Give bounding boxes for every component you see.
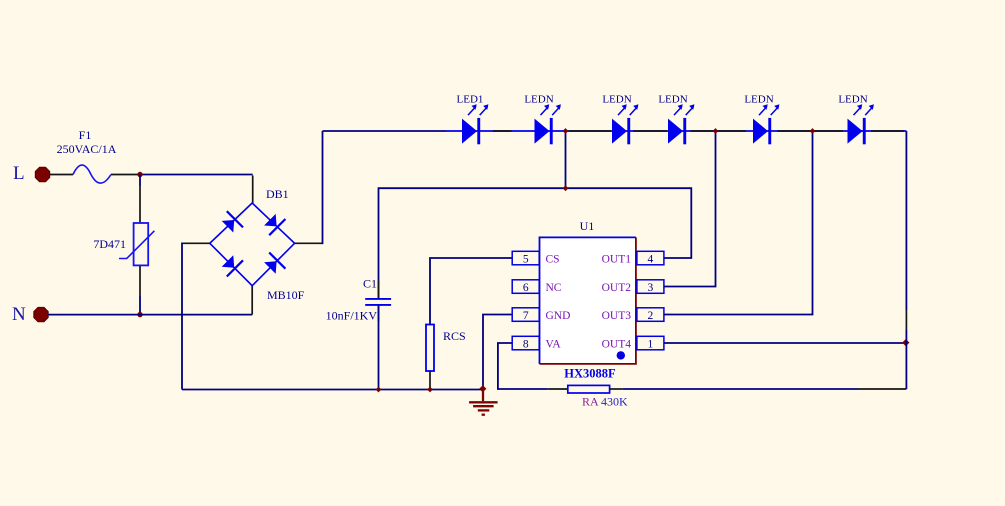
wire OUT3 bbox=[664, 131, 813, 315]
junction RCS-ground rail bbox=[427, 387, 433, 393]
pin 4 box bbox=[637, 251, 664, 265]
wire pin7 GND bbox=[483, 315, 512, 390]
svg-text:OUT2: OUT2 bbox=[602, 282, 632, 294]
LED LED2 bbox=[535, 104, 561, 144]
svg-text:LEDN: LEDN bbox=[838, 94, 867, 106]
svg-text:RA 430K: RA 430K bbox=[582, 395, 628, 409]
LED LED6 bbox=[848, 104, 874, 144]
svg-text:HX3088F: HX3088F bbox=[564, 367, 616, 381]
svg-text:4: 4 bbox=[648, 253, 654, 265]
pin 5 box bbox=[512, 251, 539, 265]
svg-text:C1: C1 bbox=[363, 277, 377, 291]
svg-text:GND: GND bbox=[546, 310, 571, 322]
svg-text:1: 1 bbox=[648, 338, 654, 350]
svg-text:6: 6 bbox=[523, 282, 529, 294]
wire RA right black segment bbox=[610, 388, 623, 390]
wire bridge left to ground rail bbox=[182, 242, 210, 244]
bridge diode bottom-left bbox=[222, 255, 243, 276]
svg-text:NC: NC bbox=[546, 282, 562, 294]
wire node1 to bridge top bbox=[140, 174, 253, 176]
LED LED3 bbox=[612, 104, 638, 144]
wire N to bridge bottom bbox=[251, 286, 253, 315]
pin 2 box bbox=[637, 308, 664, 322]
svg-text:10nF/1KV: 10nF/1KV bbox=[326, 309, 378, 323]
svg-text:OUT3: OUT3 bbox=[602, 310, 632, 322]
wire RA to right rail bbox=[623, 388, 858, 390]
terminal L bbox=[35, 167, 49, 181]
IC U1 body bbox=[540, 237, 636, 364]
junction OUT4-right rail bbox=[902, 339, 909, 346]
wire pin8 VA to RA bbox=[498, 343, 548, 389]
junction LED rail node C bbox=[810, 128, 816, 134]
svg-text:L: L bbox=[13, 163, 25, 184]
wire bridge right to LED rail bbox=[295, 242, 323, 244]
svg-text:DB1: DB1 bbox=[266, 187, 289, 201]
svg-text:LEDN: LEDN bbox=[602, 94, 631, 106]
fuse F1 bbox=[73, 165, 111, 183]
wire OUT2 bbox=[664, 131, 716, 287]
wire ground rail bottom bbox=[182, 389, 483, 391]
svg-text:7D471: 7D471 bbox=[93, 237, 126, 251]
varistor RV 7D471 bbox=[119, 223, 154, 265]
svg-text:8: 8 bbox=[523, 338, 529, 350]
junction node1 bbox=[137, 172, 142, 177]
pin 7 box bbox=[512, 308, 539, 322]
wire VA black segment bbox=[548, 388, 568, 390]
junction LED rail node B bbox=[713, 128, 719, 134]
wire LED rail black gaps bbox=[493, 130, 904, 132]
bridge rectifier DB1 diamond bbox=[210, 203, 295, 286]
bridge diode top-right bbox=[264, 214, 285, 235]
wire right rail bbox=[905, 131, 907, 310]
svg-text:2: 2 bbox=[648, 310, 654, 322]
wire C1 bottom bbox=[378, 305, 380, 390]
junction LED rail node A bbox=[563, 128, 569, 134]
capacitor C1 bbox=[365, 281, 391, 322]
wire C1 top and OUT1 net bbox=[379, 188, 692, 299]
LED LED5 bbox=[753, 104, 779, 144]
wire varistor to N line bbox=[139, 266, 141, 296]
pin 1 box bbox=[637, 336, 664, 350]
wire RCS bottom bbox=[429, 371, 431, 390]
svg-text:VA: VA bbox=[546, 338, 562, 350]
terminal N bbox=[34, 307, 48, 321]
pin 8 box bbox=[512, 336, 539, 350]
junction node N-varistor bbox=[137, 312, 142, 317]
LED LED1 bbox=[462, 104, 488, 144]
wire LED2 node down bbox=[565, 131, 567, 188]
svg-text:OUT1: OUT1 bbox=[602, 253, 632, 265]
svg-text:LEDN: LEDN bbox=[524, 94, 553, 106]
svg-text:3: 3 bbox=[648, 282, 654, 294]
svg-text:U1: U1 bbox=[580, 219, 595, 233]
junction GND-ground rail bbox=[479, 385, 486, 392]
wire LED rail blue bbox=[446, 130, 906, 132]
svg-text:LED1: LED1 bbox=[457, 94, 484, 106]
bridge diode top-left bbox=[222, 211, 243, 232]
bridge diode bottom-right bbox=[264, 253, 285, 274]
svg-text:F1: F1 bbox=[79, 128, 92, 142]
svg-text:LEDN: LEDN bbox=[658, 94, 687, 106]
pin 3 box bbox=[637, 280, 664, 294]
svg-text:5: 5 bbox=[523, 253, 529, 265]
svg-text:250VAC/1A: 250VAC/1A bbox=[57, 142, 117, 156]
resistor RA bbox=[568, 385, 610, 393]
svg-text:RCS: RCS bbox=[443, 329, 466, 343]
wire L to fuse bbox=[50, 174, 73, 176]
ground symbol bbox=[469, 390, 498, 415]
wire OUT4 bbox=[664, 342, 907, 344]
wire node1 to varistor bbox=[139, 175, 141, 187]
svg-text:N: N bbox=[12, 304, 26, 325]
junction OUT1 net bbox=[563, 185, 569, 191]
resistor RCS bbox=[426, 325, 434, 372]
svg-text:OUT4: OUT4 bbox=[602, 338, 632, 350]
wire LED rail navy lead-in bbox=[323, 130, 447, 132]
junction C1-ground rail bbox=[376, 387, 382, 393]
svg-text:7: 7 bbox=[523, 310, 529, 322]
wire pin5 to RCS bbox=[430, 258, 512, 325]
pin marker dot OUT4 bbox=[617, 351, 625, 359]
wire fuse to node1 bbox=[111, 174, 140, 176]
svg-text:CS: CS bbox=[546, 253, 560, 265]
wire N line bbox=[48, 314, 252, 316]
svg-text:MB10F: MB10F bbox=[267, 288, 305, 302]
LED LED4 bbox=[668, 104, 694, 144]
pin 6 box bbox=[512, 280, 539, 294]
svg-text:LEDN: LEDN bbox=[744, 94, 773, 106]
